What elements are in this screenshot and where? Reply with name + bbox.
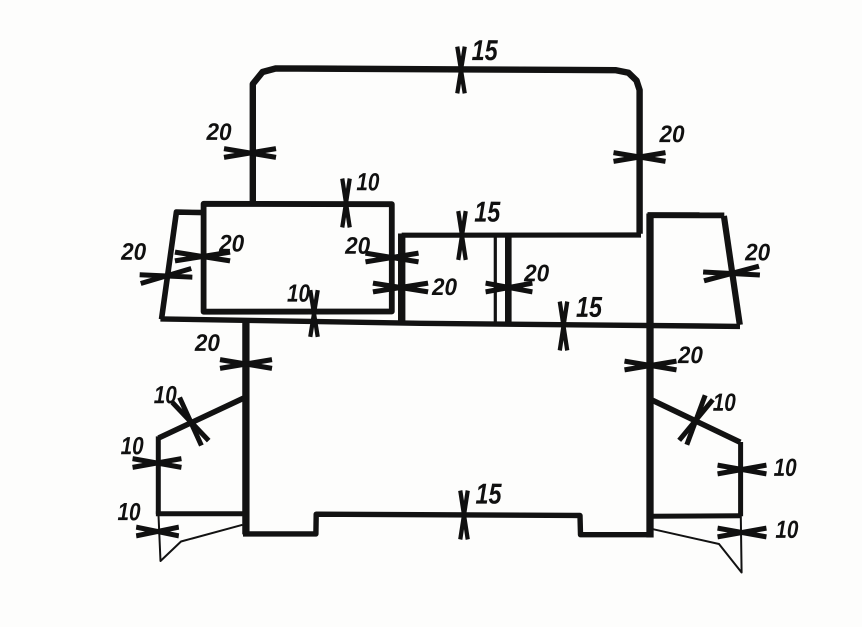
svg-text:20: 20	[120, 239, 147, 266]
svg-text:15: 15	[472, 35, 499, 67]
svg-text:10: 10	[287, 280, 310, 308]
svg-text:10: 10	[117, 498, 140, 526]
svg-text:20: 20	[206, 119, 233, 146]
svg-text:10: 10	[154, 381, 177, 409]
svg-text:20: 20	[658, 121, 685, 148]
svg-text:10: 10	[713, 389, 736, 417]
svg-text:10: 10	[121, 432, 144, 460]
svg-text:20: 20	[431, 274, 458, 301]
svg-text:10: 10	[774, 454, 797, 482]
svg-text:15: 15	[474, 197, 501, 229]
svg-text:20: 20	[677, 342, 704, 369]
svg-text:20: 20	[344, 233, 371, 260]
svg-text:20: 20	[744, 239, 771, 266]
svg-text:20: 20	[523, 260, 550, 287]
svg-text:15: 15	[576, 292, 603, 324]
svg-text:15: 15	[475, 479, 502, 511]
svg-text:10: 10	[775, 516, 798, 544]
svg-text:20: 20	[194, 330, 221, 357]
svg-text:10: 10	[356, 168, 379, 196]
svg-text:20: 20	[218, 230, 245, 257]
